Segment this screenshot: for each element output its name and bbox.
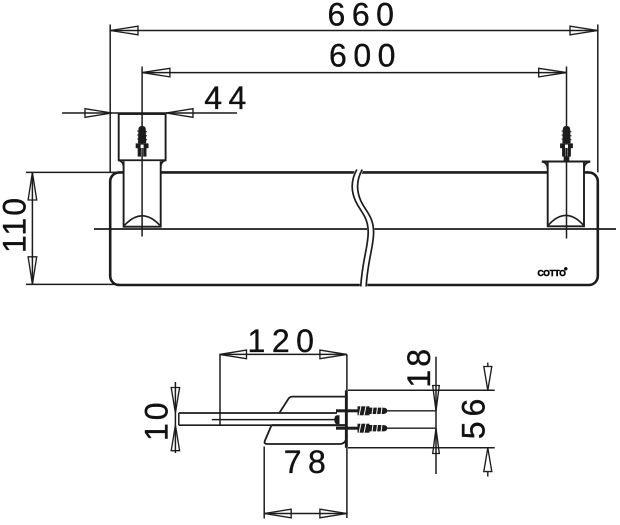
dim 18 arrow upper — [433, 386, 440, 411]
dim 600 arrow right — [539, 68, 567, 77]
right screw collar — [560, 143, 573, 148]
left screw body — [138, 126, 146, 143]
svg-text:18: 18 — [401, 346, 437, 388]
dim 600 arrow left — [142, 68, 170, 77]
dim 660 arrow left — [110, 26, 138, 35]
dim 110 arrow bottom — [28, 257, 37, 285]
left screw threads — [137, 131, 147, 140]
svg-text:660: 660 — [328, 0, 401, 33]
dim 10 arrow bottom — [171, 425, 179, 451]
dim 110 line — [31, 172, 33, 284]
dim 660 line — [110, 30, 598, 32]
left post body — [124, 161, 161, 227]
dim 10 line — [174, 382, 176, 453]
upper wall screw centerline — [348, 410, 436, 412]
dim 44 line — [62, 112, 237, 114]
dim 18 arrow lower — [433, 428, 440, 453]
dim 120 arrow right — [320, 350, 347, 359]
dim 120 line — [220, 353, 347, 355]
glass support lip line — [212, 419, 335, 421]
dim 110 ext bottom — [26, 283, 120, 285]
glass slot end blob — [334, 415, 339, 424]
upper screw white details — [359, 406, 382, 416]
svg-text:78: 78 — [284, 444, 333, 480]
dim 56 arrow bottom — [484, 448, 492, 472]
right screw tip — [564, 156, 570, 161]
right post body — [548, 163, 584, 227]
right screw body — [562, 126, 570, 143]
shelf outline — [110, 172, 598, 285]
left screw collar notch — [141, 145, 144, 148]
right screw threads — [562, 131, 572, 140]
glass shelf top line — [179, 412, 337, 414]
break wave eraser — [355, 170, 371, 287]
upper wall screw — [336, 406, 387, 415]
right screw collar notch — [565, 145, 568, 148]
glass shelf bottom line — [179, 424, 271, 426]
break wave stroke 1 — [352, 170, 368, 287]
shelf mid rail line — [94, 228, 616, 230]
svg-text:120: 120 — [248, 323, 321, 359]
dim 56 ext top — [348, 389, 495, 391]
dim 18 line — [435, 357, 437, 474]
lower wall screw — [336, 424, 387, 433]
svg-text:10: 10 — [139, 399, 175, 441]
right screw legs — [562, 148, 565, 157]
dim 120 ext left — [219, 354, 221, 425]
lower screw white details — [359, 423, 382, 433]
right post flange curl right — [584, 162, 590, 169]
right screw centerline — [566, 67, 568, 239]
dim 56 arrow top — [484, 367, 492, 391]
dim 44 arrow right — [166, 109, 193, 118]
left screw legs — [138, 148, 141, 157]
dim 110 ext top — [26, 171, 120, 173]
dim 78 ext left — [263, 447, 265, 519]
COTTO logo — [537, 267, 567, 278]
dim 56 stub bottom — [487, 472, 489, 477]
left post flange curl right — [161, 160, 165, 167]
bracket top edge with chamfer — [279, 397, 346, 413]
glass shelf left end cap — [178, 413, 180, 425]
dim 660 ext left — [109, 25, 111, 173]
dim 110 arrow top — [28, 172, 37, 200]
dim 600 line — [142, 72, 566, 74]
dim 78 arrow left — [264, 509, 291, 518]
bracket lower chamfer and bottom edge — [265, 426, 347, 444]
wall plate ext line above (120 right ext) — [346, 354, 348, 390]
left post wide plate — [119, 114, 166, 160]
left screw collar — [136, 143, 149, 148]
lower wall screw centerline — [348, 427, 436, 429]
dim 660 ext right — [597, 25, 599, 173]
svg-text:600: 600 — [329, 38, 402, 74]
wall plate ext line below (78 right ext) — [346, 448, 348, 518]
left post dome arc — [125, 216, 160, 225]
dim 78 arrow right — [320, 509, 347, 518]
dim 56 stub top — [487, 363, 489, 367]
bracket lower jaw top edge — [271, 424, 346, 426]
svg-text:COTTO: COTTO — [537, 268, 566, 278]
dim 120 arrow left — [220, 350, 247, 359]
svg-text:110: 110 — [0, 196, 33, 253]
dim 660 arrow right — [570, 26, 598, 35]
svg-text:44: 44 — [204, 80, 253, 116]
right post dome arc — [549, 215, 584, 224]
dim 10 arrow top — [171, 388, 179, 414]
left post flange curl left — [119, 160, 123, 167]
dim 44 arrow left — [85, 109, 112, 118]
dim 78 line — [264, 513, 347, 515]
right post flange curl left — [542, 162, 547, 169]
right post flange — [542, 161, 591, 163]
svg-text:56: 56 — [456, 394, 492, 440]
left screw centerline — [141, 67, 143, 237]
dim 56 ext bottom — [348, 447, 495, 449]
wall plate edge — [345, 390, 348, 448]
break wave stroke 2 — [358, 170, 374, 287]
